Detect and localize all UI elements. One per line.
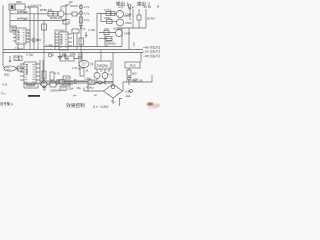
svg-text:MFB2 104: MFB2 104 [40, 8, 53, 12]
svg-text:10μ: 10μ [62, 52, 67, 56]
svg-text:效果控制: 效果控制 [66, 102, 85, 109]
svg-text:470Ω: 470Ω [104, 16, 111, 20]
svg-text:3ΩΩ: 3ΩΩ [16, 0, 22, 4]
svg-text:TA8200A: TA8200A [97, 64, 109, 68]
svg-text:4.7k: 4.7k [107, 73, 113, 77]
svg-text:DIN345: DIN345 [26, 84, 36, 88]
svg-text:4.7μ: 4.7μ [84, 12, 90, 16]
svg-text:4.7k: 4.7k [55, 72, 61, 76]
svg-text:TA7630: TA7630 [56, 30, 65, 33]
svg-text:+16V 仅右声道: +16V 仅右声道 [143, 50, 160, 54]
svg-text:4.7kΩ: 4.7kΩ [88, 28, 95, 32]
svg-text:≋470μΩ: ≋470μΩ [17, 10, 28, 14]
svg-text:7815: 7815 [129, 64, 136, 68]
svg-text:C945: C945 [125, 13, 132, 17]
svg-text:C13μ4: C13μ4 [15, 47, 23, 51]
svg-text:HP: HP [69, 0, 73, 4]
svg-text:4Ω7W: 4Ω7W [147, 17, 155, 21]
svg-text:+48V 至左声道: +48V 至左声道 [143, 46, 160, 50]
svg-text:C945: C945 [125, 21, 132, 25]
svg-text:+18V: +18V [125, 89, 132, 93]
svg-text:Pxx: Pxx [78, 55, 83, 59]
svg-text:TA7668P: TA7668P [25, 64, 28, 75]
svg-text:C 10μ: C 10μ [26, 53, 34, 57]
svg-text:C304: C304 [67, 87, 74, 91]
svg-text:8ΩΩ: 8ΩΩ [4, 73, 10, 77]
svg-text:2×~18V: 2×~18V [93, 104, 109, 109]
svg-text:CD4046: CD4046 [50, 89, 60, 93]
svg-text:100 4.7k: 100 4.7k [31, 4, 42, 8]
svg-text:(3436): (3436) [113, 27, 121, 31]
svg-text:信号输入: 信号输入 [0, 101, 14, 106]
svg-text:TA7630P: TA7630P [60, 34, 63, 45]
svg-text:0.0μ: 0.0μ [80, 27, 86, 31]
svg-text:4 1k: 4 1k [2, 83, 8, 87]
svg-text:25μ: 25μ [77, 86, 82, 90]
svg-text:输出 1: 输出 1 [116, 1, 129, 8]
svg-text:≋470μΩ: ≋470μΩ [17, 17, 28, 21]
svg-text:μPC1185: μPC1185 [17, 30, 20, 41]
svg-text:A₃.₃: A₃.₃ [111, 99, 116, 103]
svg-text:Aʙʙ: Aʙʙ [126, 94, 131, 98]
svg-text:C 25μ: C 25μ [84, 77, 92, 81]
svg-text:A≈: A≈ [73, 94, 77, 98]
svg-text:4700μ: 4700μ [86, 86, 94, 90]
svg-text:MFB2 104: MFB2 104 [50, 16, 63, 20]
svg-text:470: 470 [104, 27, 109, 31]
svg-text:100μ: 100μ [70, 52, 76, 56]
svg-text:−18V 仅右声道: −18V 仅右声道 [143, 54, 160, 58]
svg-text:FY FREQ 100: FY FREQ 100 [126, 78, 143, 82]
svg-text:1 C2μ: 1 C2μ [46, 43, 54, 47]
svg-text:560: 560 [132, 72, 137, 76]
svg-text:4.7k 4: 4.7k 4 [104, 8, 112, 12]
svg-text:(8050): (8050) [108, 42, 116, 46]
svg-text:4.7k: 4.7k [72, 66, 78, 70]
svg-text:0.1μ: 0.1μ [84, 18, 90, 22]
svg-text:4.7μ: 4.7μ [84, 5, 90, 9]
svg-text:A₁.₈: A₁.₈ [1, 91, 6, 95]
svg-text:输出 2: 输出 2 [137, 1, 150, 8]
svg-text:C945: C945 [124, 32, 131, 36]
svg-text:A≈: A≈ [94, 93, 98, 97]
svg-text:C9014: C9014 [65, 82, 73, 86]
